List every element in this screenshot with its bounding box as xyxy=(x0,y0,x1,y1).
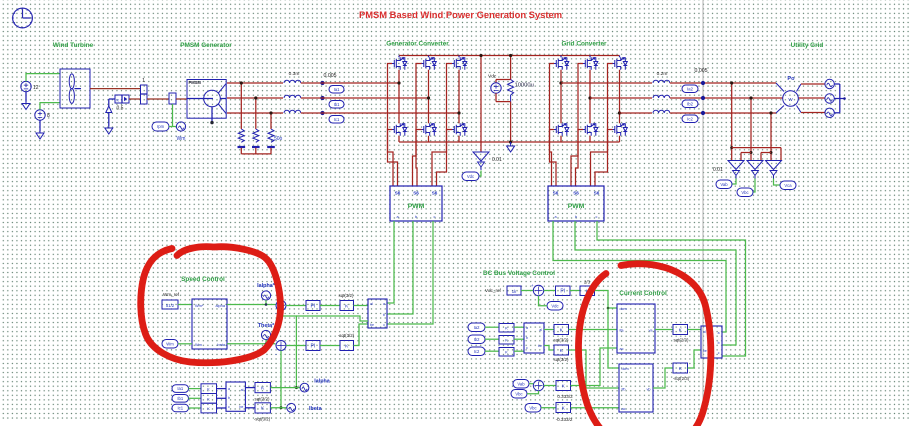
svg-text:a: a xyxy=(383,302,385,306)
svg-text:Vdc_ref: Vdc_ref xyxy=(485,288,502,293)
svg-text:a: a xyxy=(554,215,557,219)
svg-text:sqt(3/2): sqt(3/2) xyxy=(339,293,354,298)
svg-text:K: K xyxy=(505,350,508,355)
svg-text:S6: S6 xyxy=(395,191,401,196)
svg-text:0.333/2: 0.333/2 xyxy=(557,394,573,399)
svg-text:Vdc: Vdc xyxy=(467,174,474,179)
svg-text:W: W xyxy=(788,97,793,102)
svg-text:b: b xyxy=(526,336,528,340)
svg-text:K: K xyxy=(261,385,265,391)
svg-text:K: K xyxy=(562,405,566,411)
svg-text:Ib2: Ib2 xyxy=(474,337,480,342)
svg-text:Ibeta: Ibeta xyxy=(309,406,323,412)
svg-text:-0.333/2: -0.333/2 xyxy=(556,417,573,422)
svg-text:Ia1: Ia1 xyxy=(177,386,183,391)
svg-text:0.2m: 0.2m xyxy=(657,71,668,77)
svg-text:-sqt(3/2): -sqt(3/2) xyxy=(254,417,271,422)
svg-text:al: al xyxy=(241,388,244,392)
svg-text:10000u: 10000u xyxy=(515,83,534,89)
svg-text:Vdc: Vdc xyxy=(488,74,497,80)
svg-text:K: K xyxy=(562,383,566,389)
svg-text:sqt(3/2): sqt(3/2) xyxy=(554,338,569,343)
svg-text:b: b xyxy=(575,215,577,219)
svg-text:0.01: 0.01 xyxy=(713,167,723,173)
svg-text:sqt(3/2): sqt(3/2) xyxy=(554,357,569,362)
svg-text:Ialpha: Ialpha xyxy=(314,379,331,385)
svg-text:Vab: Vab xyxy=(720,182,728,187)
svg-text:Ic1: Ic1 xyxy=(177,406,183,411)
svg-text:PI: PI xyxy=(311,303,316,309)
svg-text:K: K xyxy=(261,406,265,412)
svg-text:Vca: Vca xyxy=(784,183,792,188)
svg-text:ac: ac xyxy=(620,347,624,351)
svg-text:K: K xyxy=(560,327,564,333)
svg-text:S6: S6 xyxy=(594,191,600,196)
svg-text:dcm: dcm xyxy=(622,367,629,371)
svg-text:Generator Converter: Generator Converter xyxy=(386,41,449,48)
svg-text:PMSM: PMSM xyxy=(189,80,202,85)
svg-text:PI: PI xyxy=(560,289,565,295)
svg-text:ifa: ifa xyxy=(620,329,625,333)
svg-text:PI: PI xyxy=(311,343,316,349)
svg-text:sqt(2/3): sqt(2/3) xyxy=(674,338,689,343)
svg-text:be: be xyxy=(703,349,707,353)
svg-text:0.01: 0.01 xyxy=(492,157,502,163)
svg-text:-: - xyxy=(275,352,277,358)
svg-text:Ic1: Ic1 xyxy=(334,117,340,122)
svg-text:K: K xyxy=(345,303,349,309)
svg-text:Wind Turbine: Wind Turbine xyxy=(53,42,94,49)
svg-text:Vbc: Vbc xyxy=(741,190,748,195)
svg-text:51/2: 51/2 xyxy=(166,303,175,308)
svg-text:c: c xyxy=(526,346,528,350)
svg-text:PWM: PWM xyxy=(568,203,585,210)
svg-text:Ic2: Ic2 xyxy=(474,349,480,354)
svg-text:Ib1: Ib1 xyxy=(334,102,340,107)
svg-text:K: K xyxy=(679,366,683,372)
svg-text:c: c xyxy=(718,351,720,355)
svg-text:vb: vb xyxy=(646,388,650,392)
svg-text:ac: ac xyxy=(622,407,626,411)
svg-text:Ialpha*: Ialpha* xyxy=(257,283,276,289)
svg-text:a: a xyxy=(526,326,528,330)
svg-text:c: c xyxy=(228,405,230,409)
svg-text:Utility Grid: Utility Grid xyxy=(791,42,824,49)
svg-text:0.5: 0.5 xyxy=(117,106,124,112)
svg-text:Vbc: Vbc xyxy=(529,405,536,410)
svg-text:al: al xyxy=(539,328,542,332)
svg-text:Theta*: Theta* xyxy=(258,323,275,329)
svg-text:Current Control: Current Control xyxy=(619,290,667,297)
svg-text:sqt(3/2): sqt(3/2) xyxy=(255,397,270,402)
svg-text:Ib2: Ib2 xyxy=(687,101,693,106)
svg-text:Wm: Wm xyxy=(195,342,202,347)
svg-text:Speed Control: Speed Control xyxy=(181,276,225,283)
svg-text:Grid Converter: Grid Converter xyxy=(561,41,607,48)
svg-text:al: al xyxy=(703,330,706,334)
svg-text:0.3m: 0.3m xyxy=(289,71,300,77)
svg-text:Ia2: Ia2 xyxy=(687,86,693,91)
svg-text:Ia2: Ia2 xyxy=(474,325,480,330)
svg-text:1: 1 xyxy=(142,78,145,84)
svg-text:a: a xyxy=(718,331,720,335)
svg-text:Wm: Wm xyxy=(166,341,174,346)
svg-text:b: b xyxy=(228,396,230,400)
svg-text:+: + xyxy=(531,283,534,288)
svg-text:DC Bus Voltage Control: DC Bus Voltage Control xyxy=(483,270,555,277)
svg-text:K: K xyxy=(117,97,120,102)
svg-text:a: a xyxy=(396,215,399,219)
svg-text:0.005: 0.005 xyxy=(324,73,337,79)
svg-text:Vbc: Vbc xyxy=(515,391,522,396)
svg-text:c: c xyxy=(596,215,598,219)
svg-text:Wm: Wm xyxy=(177,136,186,142)
svg-text:a: a xyxy=(228,387,230,391)
svg-text:c: c xyxy=(383,323,385,327)
svg-text:Ic2: Ic2 xyxy=(687,116,693,121)
svg-text:K: K xyxy=(560,348,564,354)
svg-text:Wm*: Wm* xyxy=(195,303,204,308)
svg-text:c: c xyxy=(434,215,436,219)
svg-text:PMSM Based Wind Power Generati: PMSM Based Wind Power Generation System xyxy=(359,9,562,20)
svg-text:Ib1: Ib1 xyxy=(177,396,183,401)
svg-text:ifb: ifb xyxy=(622,388,626,392)
svg-text:alpha: alpha xyxy=(215,303,225,308)
svg-text:K: K xyxy=(207,396,210,401)
svg-text:S6: S6 xyxy=(553,191,559,196)
svg-text:S6: S6 xyxy=(432,191,438,196)
svg-text:Vab: Vab xyxy=(517,381,525,386)
svg-text:be: be xyxy=(239,405,243,409)
svg-text:50o: 50o xyxy=(274,136,283,142)
svg-text:beta: beta xyxy=(217,342,225,347)
svg-text:S6: S6 xyxy=(413,191,419,196)
svg-text:Po: Po xyxy=(787,76,795,82)
svg-text:PWM: PWM xyxy=(408,203,425,210)
svg-text:1k: 1k xyxy=(512,289,517,294)
svg-text:va: va xyxy=(648,329,653,333)
svg-text:be: be xyxy=(538,344,542,348)
svg-text:PMSM Generator: PMSM Generator xyxy=(180,42,232,49)
svg-text:S6: S6 xyxy=(573,191,579,196)
svg-text:al: al xyxy=(370,302,373,306)
svg-text:2/3: 2/3 xyxy=(584,280,591,285)
svg-text:b: b xyxy=(383,313,385,317)
svg-text:b: b xyxy=(415,215,417,219)
svg-text:-sqt(3/2): -sqt(3/2) xyxy=(338,333,355,338)
svg-text:be: be xyxy=(370,323,374,327)
svg-text:-sqt(2/3): -sqt(2/3) xyxy=(673,376,690,381)
svg-text:8: 8 xyxy=(47,113,50,119)
svg-text:K: K xyxy=(345,343,349,349)
svg-text:b: b xyxy=(718,341,720,345)
svg-text:0.005: 0.005 xyxy=(695,68,708,74)
svg-text:K: K xyxy=(505,326,508,331)
svg-text:Ia1: Ia1 xyxy=(334,87,340,92)
svg-text:K: K xyxy=(679,327,683,333)
svg-text:Vdc: Vdc xyxy=(551,303,558,308)
svg-text:rpm: rpm xyxy=(157,124,165,129)
svg-text:dcm: dcm xyxy=(620,307,627,311)
svg-text:K: K xyxy=(207,387,210,392)
svg-text:K: K xyxy=(505,338,508,343)
svg-text:K: K xyxy=(207,406,210,411)
svg-text:Wm_ref: Wm_ref xyxy=(163,292,180,297)
svg-text:12: 12 xyxy=(33,85,39,91)
